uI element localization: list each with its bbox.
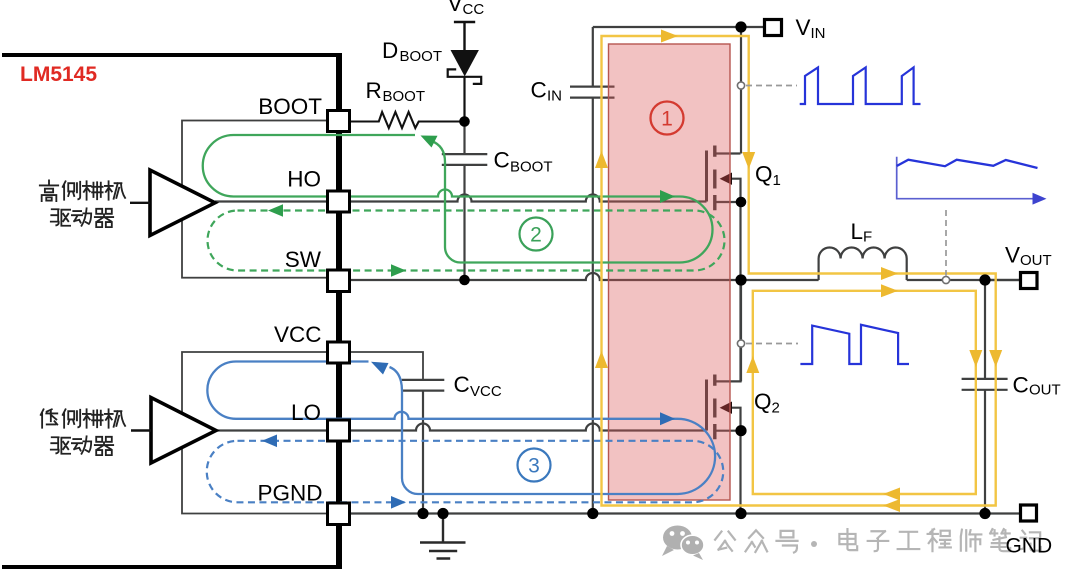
transistor Q1 source and body leads (715, 179, 741, 280)
label low-side driver chinese line2 (51, 436, 113, 455)
PART:LOOPS (417, 21, 990, 519)
wire HO (pin HO to Q1 gate, with crossover hops) (215, 195, 707, 202)
high-side driver box (182, 121, 339, 278)
capacitor CIN plates (570, 87, 615, 98)
yellow arrow up left rail lower (595, 351, 608, 368)
gate-discharge loop 2 dashed trace (208, 211, 725, 271)
svg-text:Q: Q (755, 162, 773, 187)
terminal GND (1021, 505, 1037, 521)
capacitor CVCC plates (402, 380, 445, 391)
loop 3 dashed arrow right (391, 496, 406, 509)
LM5145 top boundary (2, 53, 341, 57)
yellow arrow right inner loop top (881, 284, 898, 297)
output power loop yellow inner (753, 291, 976, 494)
svg-text:IN: IN (811, 25, 826, 42)
yellow arrow right top rail (661, 30, 678, 43)
yellow arrow down right rail outer (989, 350, 1002, 367)
yellow arrow right above LF (881, 267, 898, 280)
pin HO (328, 191, 350, 212)
transistor Q2 gate bar (705, 380, 708, 431)
loop 2 dashed arrow right (391, 264, 406, 277)
transistor Q1 gate bar (705, 151, 708, 202)
capacitor CBOOT plates (442, 154, 488, 165)
capacitor COUT branch (984, 280, 986, 514)
dashed probe link inductor (945, 210, 947, 276)
probe circle inductor waveform (942, 276, 949, 283)
probe circle SW waveform (737, 340, 744, 347)
hot-loop shaded region 1 (609, 44, 731, 500)
svg-text:LO: LO (291, 400, 321, 425)
svg-text:LM5145: LM5145 (20, 63, 97, 86)
svg-text:C: C (1013, 373, 1029, 398)
svg-text:VCC: VCC (274, 322, 322, 347)
ground symbol (420, 514, 466, 559)
svg-text:1: 1 (773, 172, 781, 189)
svg-text:D: D (382, 38, 398, 63)
waveform inductor current axis arrow (1033, 193, 1047, 205)
waveform inductor current axes (897, 157, 1034, 199)
capacitor CVCC lower lead (422, 391, 424, 514)
op-amp U2 low-side driver triangle (151, 398, 216, 464)
svg-text:BOOT: BOOT (258, 94, 322, 119)
loop 2 solid arrow at RBOOT (421, 136, 438, 148)
svg-text:V: V (1005, 243, 1020, 268)
junction Q1 source (736, 197, 747, 208)
svg-text:BOOT: BOOT (510, 159, 553, 176)
svg-text:VCC: VCC (470, 383, 502, 400)
yellow arrow left bottom rail outer (883, 499, 900, 512)
gate-discharge loop 3 dashed trace (207, 441, 724, 503)
pin SW (328, 270, 350, 292)
svg-text:BOOT: BOOT (400, 48, 443, 65)
watermark text gongzhonghao (715, 530, 797, 552)
loop 2 dashed arrow left (268, 204, 283, 217)
svg-text:HO: HO (287, 167, 321, 192)
LM5145 pin bus (336, 53, 342, 569)
pin BOOT (328, 111, 350, 132)
waveform input current pulses (800, 67, 921, 104)
svg-text:R: R (366, 78, 382, 103)
svg-text:OUT: OUT (1020, 252, 1052, 269)
svg-text:C: C (531, 78, 547, 103)
capacitor CIN branch (592, 27, 594, 514)
pin VCC (328, 342, 350, 363)
junction CVCC to PGND (417, 508, 428, 519)
diode DBOOT schottky cathode (448, 69, 482, 121)
watermark separator dot (811, 541, 817, 547)
label high-side driver chinese line2 (51, 208, 113, 227)
gate-charge loop 2 solid trace (203, 135, 713, 263)
junction RBOOT/DBOOT/CBOOT (459, 116, 470, 127)
svg-text:V: V (796, 15, 811, 40)
wire top VIN rail (593, 27, 765, 154)
transistor Q1 channel dashes (713, 146, 716, 211)
loop 3 solid arrow at LO (660, 412, 675, 425)
junction VOUT node (979, 274, 990, 285)
svg-text:2: 2 (772, 400, 780, 417)
wire VOUT terminal (985, 279, 1021, 281)
yellow arrow up left rail upper (595, 151, 608, 168)
waveform inductor current ripple (897, 160, 1038, 168)
svg-text:IN: IN (547, 88, 562, 105)
loop 3 dashed arrow left (262, 435, 277, 448)
capacitor COUT plates (962, 379, 1008, 390)
pin PGND (328, 503, 350, 525)
terminal VOUT (1021, 273, 1038, 289)
yellow arrow up inner loop left (746, 356, 759, 373)
LM5145 bottom boundary (2, 565, 341, 569)
svg-text:PGND: PGND (257, 481, 322, 506)
transistor Q1 body-diode arrow (720, 173, 732, 185)
svg-text:1: 1 (661, 108, 673, 131)
dashed probe link SW (746, 343, 798, 345)
svg-text:SW: SW (285, 247, 322, 272)
probe circle VIN waveform (737, 82, 744, 89)
junction Q2 source to PGND (735, 508, 746, 519)
op-amp U1 high-side driver triangle (150, 170, 215, 236)
junction ground tap (437, 508, 448, 519)
yellow arrow left bottom rail inner (883, 488, 900, 501)
svg-text:Q: Q (754, 389, 772, 414)
wire SW row (pin SW to SW node) (350, 273, 741, 280)
svg-text:F: F (863, 229, 872, 246)
diode DBOOT body (451, 50, 479, 76)
terminal VIN (765, 20, 782, 36)
label high-side driver chinese line1 (40, 180, 125, 201)
junction GND node (979, 508, 990, 519)
label low-side driver chinese line1 (41, 409, 125, 427)
svg-text:3: 3 (528, 455, 540, 478)
transistor Q2 body-diode arrow (720, 402, 732, 414)
svg-text:BOOT: BOOT (383, 88, 426, 105)
resistor RBOOT (350, 112, 465, 128)
input power loop yellow outer (602, 36, 996, 506)
svg-text:CC: CC (463, 1, 485, 18)
node label circle 1 (651, 102, 684, 135)
capacitor CBOOT branch (463, 122, 465, 281)
yellow arrow down at Q1 (742, 152, 755, 169)
gate-charge loop 3 solid trace (207, 362, 715, 495)
watermark wechat icon (662, 526, 704, 561)
loop 3 solid arrow at VCC (371, 362, 389, 375)
junction VIN node (735, 21, 746, 32)
svg-text:OUT: OUT (1029, 382, 1061, 399)
transistor Q1 drain lead (715, 152, 741, 154)
VCC supply bar (454, 22, 475, 50)
junction Q2 source (735, 425, 746, 436)
waveform SW node pulses (800, 325, 909, 364)
transistor Q2 source and body leads (715, 408, 741, 514)
wire LO (pin LO to Q2 gate, with hops) (217, 424, 707, 431)
low-side driver box (182, 352, 423, 514)
dashed probe link VIN (746, 85, 797, 87)
yellow arrow down right rail inner (969, 350, 982, 367)
loop label circle 2 (520, 218, 553, 251)
junction CBOOT to SW (459, 275, 470, 286)
svg-text:V: V (448, 0, 463, 16)
svg-text:C: C (494, 148, 510, 173)
loop 2 solid arrow at HO (660, 190, 675, 203)
wire SW node to V_OUT (741, 280, 1021, 381)
svg-text:GND: GND (1006, 535, 1053, 558)
wire PGND row to GND terminal (350, 512, 1021, 514)
svg-text:L: L (851, 219, 864, 244)
inductor LF (819, 247, 907, 280)
low-side driver input stub (131, 429, 151, 431)
svg-text:2: 2 (530, 224, 542, 247)
transistor Q2 channel dashes (713, 375, 716, 440)
transistor Q2 drain lead (715, 280, 741, 381)
svg-text:C: C (454, 372, 470, 397)
junction SW node (735, 274, 746, 285)
junction CIN bottom (587, 508, 598, 519)
loop label circle 3 (518, 449, 551, 482)
high-side driver input stub (130, 202, 150, 204)
pin LO (328, 420, 350, 441)
watermark text dianzi gongchengshi biji (839, 529, 1040, 551)
